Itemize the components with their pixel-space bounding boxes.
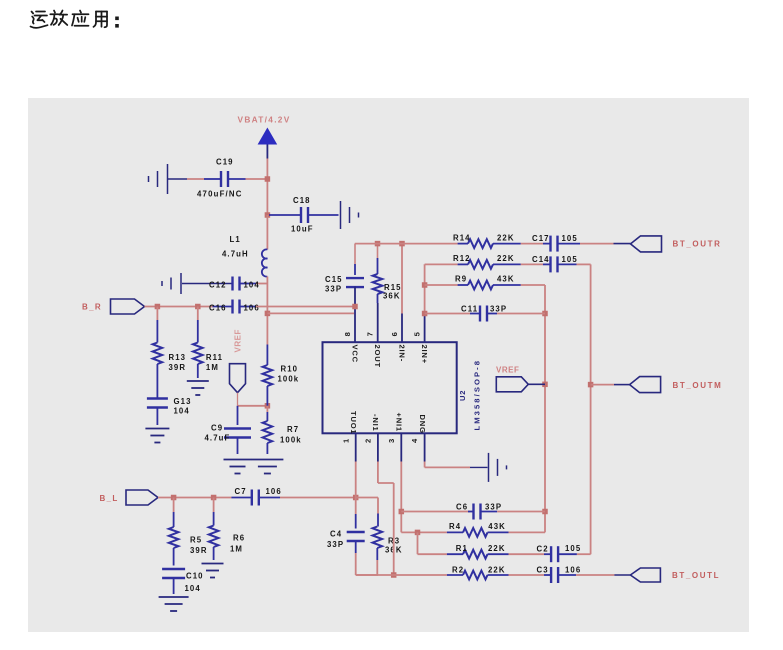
wire VREF port to node <box>238 393 268 406</box>
svg-text:5: 5 <box>412 331 421 336</box>
svg-text:10uF: 10uF <box>291 225 314 234</box>
svg-text:43K: 43K <box>497 275 515 284</box>
svg-text:104: 104 <box>185 584 201 593</box>
junction pin8/C15/B_R row <box>352 304 358 310</box>
wire rail to L1 <box>266 215 268 250</box>
title character 放 <box>50 11 67 26</box>
junction R4 row/R1 branch <box>415 530 421 536</box>
resistor R10 100k <box>263 345 300 406</box>
svg-text:4.7uH: 4.7uH <box>222 250 249 259</box>
wire R2 to C3 <box>509 574 545 576</box>
wire rail second row to pin8 stub <box>267 312 354 314</box>
ground for R7 <box>251 460 283 474</box>
resistor R4 43K <box>447 522 509 537</box>
svg-text:C14: C14 <box>532 255 550 264</box>
wire R9 to vertical <box>521 284 545 286</box>
ground for C12 <box>162 273 232 294</box>
wire C3 to BT_OUTL <box>576 574 630 576</box>
svg-text:R11: R11 <box>206 353 223 362</box>
svg-text:C10: C10 <box>186 572 204 581</box>
pin 3 1IN+ stub <box>387 413 404 462</box>
junction at C19/VBAT rail <box>265 176 271 182</box>
svg-text:6: 6 <box>390 331 399 336</box>
wire C19 to VBAT rail <box>246 178 268 180</box>
svg-text:C15: C15 <box>325 275 343 284</box>
svg-text:100k: 100k <box>278 374 300 383</box>
svg-text:C4: C4 <box>330 530 342 539</box>
wire C17 to BT_OUTR <box>580 243 631 245</box>
wire C11 to vertical <box>497 313 545 315</box>
svg-text:C7: C7 <box>235 487 247 496</box>
svg-text:G13: G13 <box>174 397 192 406</box>
resistor R15 36K <box>373 244 402 303</box>
svg-text:106: 106 <box>565 566 581 575</box>
capacitor C13 104 <box>147 397 192 425</box>
wire VREF port to vertical <box>528 383 545 385</box>
svg-text:B_L: B_L <box>100 494 119 503</box>
power symbol VBAT/4.2V <box>238 115 291 159</box>
svg-text:R2: R2 <box>452 566 464 575</box>
svg-text:106: 106 <box>244 304 260 313</box>
svg-text:B_R: B_R <box>82 303 102 312</box>
svg-text:100k: 100k <box>280 436 302 445</box>
svg-text:BT_OUTR: BT_OUTR <box>673 240 722 249</box>
wire C7 to pin1 node <box>280 497 356 499</box>
wire R4 to vertical <box>509 531 546 533</box>
svg-text:VREF: VREF <box>496 366 519 375</box>
svg-text:R10: R10 <box>281 364 299 373</box>
port BT_OUTM <box>630 377 723 393</box>
svg-text:R13: R13 <box>169 353 187 362</box>
svg-text:R5: R5 <box>190 536 202 545</box>
wire R4 row left <box>401 531 447 533</box>
svg-text:C6: C6 <box>456 503 468 512</box>
svg-text:105: 105 <box>565 544 581 553</box>
svg-text:22K: 22K <box>488 566 506 575</box>
resistor R9 43K <box>455 275 521 290</box>
schematic sheet background <box>28 98 749 632</box>
port B_L <box>100 490 159 505</box>
svg-text:R14: R14 <box>453 233 471 242</box>
wire BT_OUTM row <box>591 384 630 386</box>
pin 7 2OUT stub <box>365 303 382 368</box>
svg-text:R7: R7 <box>287 425 299 434</box>
net label VREF right <box>496 366 519 375</box>
svg-text:1: 1 <box>341 438 350 443</box>
net label VREF left <box>234 329 243 352</box>
resistor R2 22K <box>447 566 509 580</box>
resistor R3 36K <box>373 498 403 576</box>
capacitor C10 104 <box>162 569 204 594</box>
svg-text:8: 8 <box>343 331 352 336</box>
junction B_R/R11 <box>195 304 201 310</box>
svg-text:C9: C9 <box>211 424 223 433</box>
svg-text:BT_OUTM: BT_OUTM <box>673 381 723 390</box>
junction rail at second row <box>265 311 271 317</box>
title character 用 <box>94 12 108 28</box>
svg-text:2IN-: 2IN- <box>398 345 407 363</box>
port BT_OUTR <box>631 236 722 252</box>
junction vertical/C11 row <box>542 311 548 317</box>
wire R14 to C17 <box>521 243 543 245</box>
capacitor C11 33P <box>461 305 507 322</box>
svg-text:C19: C19 <box>216 158 234 167</box>
svg-text:TUO1: TUO1 <box>349 411 358 434</box>
port BT_OUTL <box>630 568 720 582</box>
svg-text:2IN+: 2IN+ <box>420 345 429 364</box>
title character 运 <box>31 12 48 28</box>
wire R1 row left <box>418 553 447 555</box>
wire C6 to vertical <box>497 511 545 513</box>
wire R12 to C14 <box>521 263 543 265</box>
capacitor C4 33P <box>327 514 365 553</box>
svg-text:33P: 33P <box>485 503 502 512</box>
svg-text:39R: 39R <box>169 363 187 372</box>
capacitor C17 105 <box>532 234 580 252</box>
junction VREF row <box>265 403 271 409</box>
svg-text:C17: C17 <box>532 234 550 243</box>
ground for R11 <box>187 381 209 395</box>
capacitor C12 104 <box>209 277 267 291</box>
svg-text:33P: 33P <box>325 285 342 294</box>
svg-text:104: 104 <box>244 281 260 290</box>
svg-text:U2: U2 <box>458 390 467 401</box>
svg-text:22K: 22K <box>497 233 515 242</box>
svg-text:33P: 33P <box>327 540 344 549</box>
ground for C19 <box>149 164 205 194</box>
svg-text:R1: R1 <box>456 544 468 553</box>
wire vertical C14/BT_OUTM/C2 <box>590 264 592 554</box>
capacitor C2 105 <box>537 544 582 562</box>
svg-text:C16: C16 <box>209 304 227 313</box>
pin 6 2IN- stub and feedback wire <box>390 244 407 362</box>
junction pin2 column bottom rail <box>391 572 397 578</box>
junction B_R/R13 <box>155 304 161 310</box>
pin 8 VCC stub <box>343 287 360 363</box>
wire bottom rail <box>356 574 447 576</box>
pin 2 1IN- stub <box>364 414 381 462</box>
resistor R7 100k <box>263 406 302 454</box>
wire row2 from pin5 <box>425 263 458 266</box>
resistor R12 22K <box>453 254 521 269</box>
svg-text:33P: 33P <box>490 305 507 314</box>
svg-text:C12: C12 <box>209 281 227 290</box>
svg-text:22K: 22K <box>488 544 506 553</box>
svg-text:C11: C11 <box>461 305 478 314</box>
port B_R <box>82 299 145 314</box>
svg-text:C18: C18 <box>293 196 311 205</box>
ground for C18 <box>341 201 359 229</box>
svg-text:106: 106 <box>266 487 282 496</box>
wire B_L row <box>158 497 231 499</box>
op-amp U2 LM358/SOP-8 <box>323 342 482 433</box>
resistor R6 1M <box>209 498 245 561</box>
wire pin1 down to C4 <box>355 462 357 515</box>
svg-text:470uF/NC: 470uF/NC <box>197 190 243 199</box>
ground for pin4 <box>489 453 507 482</box>
ground for R6 <box>202 564 224 578</box>
pin 1 1OUT stub <box>341 411 358 462</box>
svg-text:R9: R9 <box>455 275 467 284</box>
port VREF right <box>496 377 528 392</box>
capacitor C7 106 <box>231 487 281 506</box>
wire B_R row <box>145 306 213 308</box>
svg-text:C3: C3 <box>537 566 549 575</box>
junction B_L/R6 <box>211 495 217 501</box>
capacitor C15 33P <box>325 244 364 294</box>
svg-text:7: 7 <box>365 331 374 336</box>
svg-text:LM358/SOP-8: LM358/SOP-8 <box>473 359 482 431</box>
capacitor C6 33P <box>456 503 502 520</box>
resistor R11 1M <box>193 307 223 379</box>
svg-text:VCC: VCC <box>351 345 360 363</box>
pin 4 GND stub <box>410 415 427 462</box>
svg-text:VBAT/4.2V: VBAT/4.2V <box>238 115 291 125</box>
svg-text:BT_OUTL: BT_OUTL <box>672 571 720 580</box>
wire R1 branch down <box>417 532 419 554</box>
resistor R13 39R <box>153 307 187 399</box>
junction pin5/C11 row <box>422 311 428 317</box>
svg-text:+NI1: +NI1 <box>395 413 404 432</box>
svg-text:1M: 1M <box>230 545 243 554</box>
capacitor C3 106 <box>537 566 582 584</box>
svg-text:22K: 22K <box>497 254 515 263</box>
wire rail L1 to R10 with C12/C16 taps <box>266 277 268 345</box>
junction B_L/R5 <box>171 495 177 501</box>
junction pin5/R9 row <box>422 282 428 288</box>
svg-text:C2: C2 <box>537 545 549 554</box>
svg-text:DNG: DNG <box>418 415 427 434</box>
wire pin3 down <box>400 462 402 533</box>
port VREF down <box>230 364 246 393</box>
junction pin3/C6 row <box>399 509 405 515</box>
junction vertical/C6 row <box>542 509 548 515</box>
ground for C13 <box>145 429 169 443</box>
junction BT_OUTM <box>588 382 594 388</box>
resistor R5 39R <box>169 498 208 566</box>
svg-text:2: 2 <box>364 438 373 443</box>
wire row4 C11 left <box>425 313 470 315</box>
svg-text:2OUT: 2OUT <box>373 345 382 368</box>
wire VBAT rail down <box>266 159 268 216</box>
svg-text:1M: 1M <box>206 363 219 372</box>
capacitor C14 105 <box>532 255 578 273</box>
wire pin1 node to R3 corner <box>356 497 378 499</box>
svg-text:105: 105 <box>562 255 578 264</box>
wire C6 row left <box>401 511 470 513</box>
wire C14 to vertical <box>577 263 591 265</box>
wire C4 to bottom rail <box>356 553 378 575</box>
svg-text:104: 104 <box>174 407 190 416</box>
capacitor C16 106 <box>209 300 260 314</box>
svg-text:105: 105 <box>562 234 578 243</box>
junction R15 top <box>375 241 381 247</box>
pin 5 2IN+ stub and wire <box>412 264 429 364</box>
svg-text:3: 3 <box>387 438 396 443</box>
svg-text:36K: 36K <box>383 292 401 301</box>
wire vertical R9/C11/VREF/C6/R4 <box>544 285 546 532</box>
svg-text:43K: 43K <box>488 522 506 531</box>
svg-text:4: 4 <box>410 438 419 443</box>
junction at C18 branch <box>265 212 271 218</box>
ground for C9 <box>224 460 252 474</box>
wire row3 R9 <box>425 284 458 286</box>
wire C2 to vertical <box>577 553 591 555</box>
svg-text:R12: R12 <box>453 254 471 263</box>
capacitor C9 4.7uF <box>205 406 252 454</box>
svg-text:4.7uF: 4.7uF <box>205 434 231 443</box>
inductor L1 4.7uH <box>222 235 267 277</box>
title fullwidth colon <box>115 17 119 28</box>
wire R1 to C2 <box>509 553 545 555</box>
wire pin4 to ground <box>425 462 488 468</box>
svg-text:39R: 39R <box>190 546 208 555</box>
wire pin2 jog to bottom rail <box>378 462 394 576</box>
resistor R14 22K <box>453 233 521 248</box>
wire row1 feedback <box>355 243 458 245</box>
svg-text:L1: L1 <box>230 235 241 244</box>
ground for C10 <box>159 597 189 611</box>
svg-text:-NI1: -NI1 <box>371 414 380 432</box>
title character 应 <box>72 11 89 26</box>
svg-text:R4: R4 <box>449 522 461 531</box>
resistor R1 22K <box>447 544 509 559</box>
svg-text:VREF: VREF <box>234 329 243 352</box>
svg-text:R6: R6 <box>233 534 245 543</box>
wire C16 to C15/pin8 node <box>256 306 355 308</box>
capacitor C18 10uF <box>269 196 339 234</box>
junction pin6 feedback <box>399 241 405 247</box>
junction vertical/VREF <box>542 382 548 388</box>
capacitor C19 470uF/NC <box>197 158 246 199</box>
junction pin1/C7 row <box>353 495 359 501</box>
